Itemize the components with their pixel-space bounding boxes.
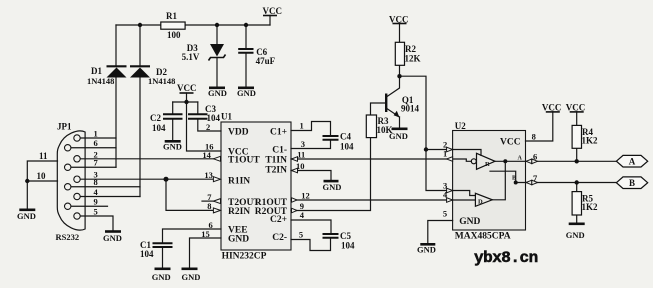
svg-text:13: 13	[204, 170, 213, 180]
svg-text:5: 5	[443, 208, 447, 218]
svg-text:VCC: VCC	[500, 138, 521, 148]
svg-text:11: 11	[297, 150, 305, 160]
svg-text:GND: GND	[417, 245, 436, 255]
svg-text:VCC: VCC	[566, 103, 586, 113]
svg-text:JP1: JP1	[57, 122, 72, 132]
svg-text:C2+: C2+	[270, 215, 287, 225]
svg-text:104: 104	[340, 142, 354, 152]
svg-text:A: A	[629, 157, 636, 167]
svg-text:47uF: 47uF	[256, 56, 276, 66]
svg-text:1N4148: 1N4148	[87, 76, 114, 86]
svg-text:R1IN: R1IN	[228, 177, 250, 187]
svg-text:R2: R2	[405, 44, 416, 54]
svg-text:D1: D1	[91, 66, 102, 76]
svg-text:GND: GND	[163, 142, 182, 152]
svg-text:A: A	[518, 156, 523, 162]
svg-text:GND: GND	[152, 272, 171, 282]
svg-text:15: 15	[201, 229, 210, 239]
svg-text:1: 1	[443, 149, 447, 159]
svg-text:1: 1	[300, 121, 304, 131]
svg-text:GND: GND	[17, 211, 36, 221]
svg-text:1K2: 1K2	[582, 202, 599, 212]
svg-text:9014: 9014	[401, 104, 420, 114]
svg-text:VCC: VCC	[542, 103, 562, 113]
svg-text:C5: C5	[340, 231, 351, 241]
svg-text:C2: C2	[150, 113, 161, 123]
svg-text:2: 2	[206, 122, 210, 132]
svg-text:104: 104	[341, 241, 355, 251]
svg-text:HIN232CP: HIN232CP	[222, 252, 267, 262]
svg-text:GND: GND	[323, 182, 342, 192]
svg-text:11: 11	[39, 151, 48, 161]
svg-text:6: 6	[533, 152, 537, 162]
svg-text:5: 5	[299, 230, 303, 240]
svg-text:C4: C4	[340, 132, 351, 142]
svg-text:R1: R1	[166, 11, 177, 21]
svg-text:D: D	[478, 199, 483, 206]
svg-text:5: 5	[94, 207, 98, 217]
svg-text:R: R	[485, 161, 490, 168]
svg-text:GND: GND	[103, 233, 122, 243]
svg-text:GND: GND	[459, 217, 480, 227]
svg-text:GND: GND	[237, 88, 256, 98]
svg-text:C1-: C1-	[272, 146, 287, 156]
svg-text:GND: GND	[566, 230, 585, 240]
svg-text:GND: GND	[182, 272, 201, 282]
svg-text:MAX485CPA: MAX485CPA	[455, 232, 511, 242]
svg-text:VDD: VDD	[228, 128, 249, 138]
svg-text:8: 8	[207, 201, 211, 211]
svg-text:GND: GND	[389, 131, 408, 141]
svg-text:1: 1	[94, 129, 98, 139]
svg-text:1N4148: 1N4148	[148, 76, 175, 86]
svg-text:R2IN: R2IN	[228, 207, 250, 217]
svg-text:14: 14	[202, 150, 211, 160]
svg-text:B: B	[629, 178, 635, 188]
svg-text:T2IN: T2IN	[265, 166, 287, 176]
svg-text:5.1V: 5.1V	[182, 52, 200, 62]
svg-text:GND: GND	[228, 235, 249, 245]
svg-text:GND: GND	[208, 88, 227, 98]
svg-text:1K2: 1K2	[582, 136, 599, 146]
svg-text:9: 9	[94, 197, 98, 207]
svg-text:8: 8	[532, 132, 536, 142]
svg-text:U2: U2	[455, 121, 466, 131]
svg-text:8: 8	[94, 177, 98, 187]
svg-text:T1OUT: T1OUT	[228, 156, 260, 166]
svg-text:VCC: VCC	[389, 15, 409, 25]
svg-text:RS232: RS232	[56, 232, 80, 242]
svg-text:4: 4	[300, 210, 305, 220]
svg-text:100: 100	[167, 30, 181, 40]
svg-text:10: 10	[37, 171, 47, 181]
svg-text:VCC: VCC	[263, 6, 283, 16]
svg-text:C2-: C2-	[272, 233, 287, 243]
svg-text:104: 104	[140, 249, 154, 259]
svg-text:104: 104	[152, 123, 166, 133]
svg-text:12: 12	[301, 191, 310, 201]
svg-text:VCC: VCC	[177, 83, 197, 93]
svg-text:3: 3	[301, 139, 305, 149]
svg-text:10: 10	[296, 161, 305, 171]
svg-text:12K: 12K	[405, 54, 421, 64]
svg-text:C1+: C1+	[270, 128, 287, 138]
svg-text:ybx8.cn: ybx8.cn	[474, 249, 538, 267]
svg-text:6: 6	[94, 138, 98, 148]
svg-text:B: B	[512, 176, 516, 182]
svg-text:T1IN: T1IN	[265, 156, 287, 166]
svg-text:U1: U1	[221, 112, 232, 122]
